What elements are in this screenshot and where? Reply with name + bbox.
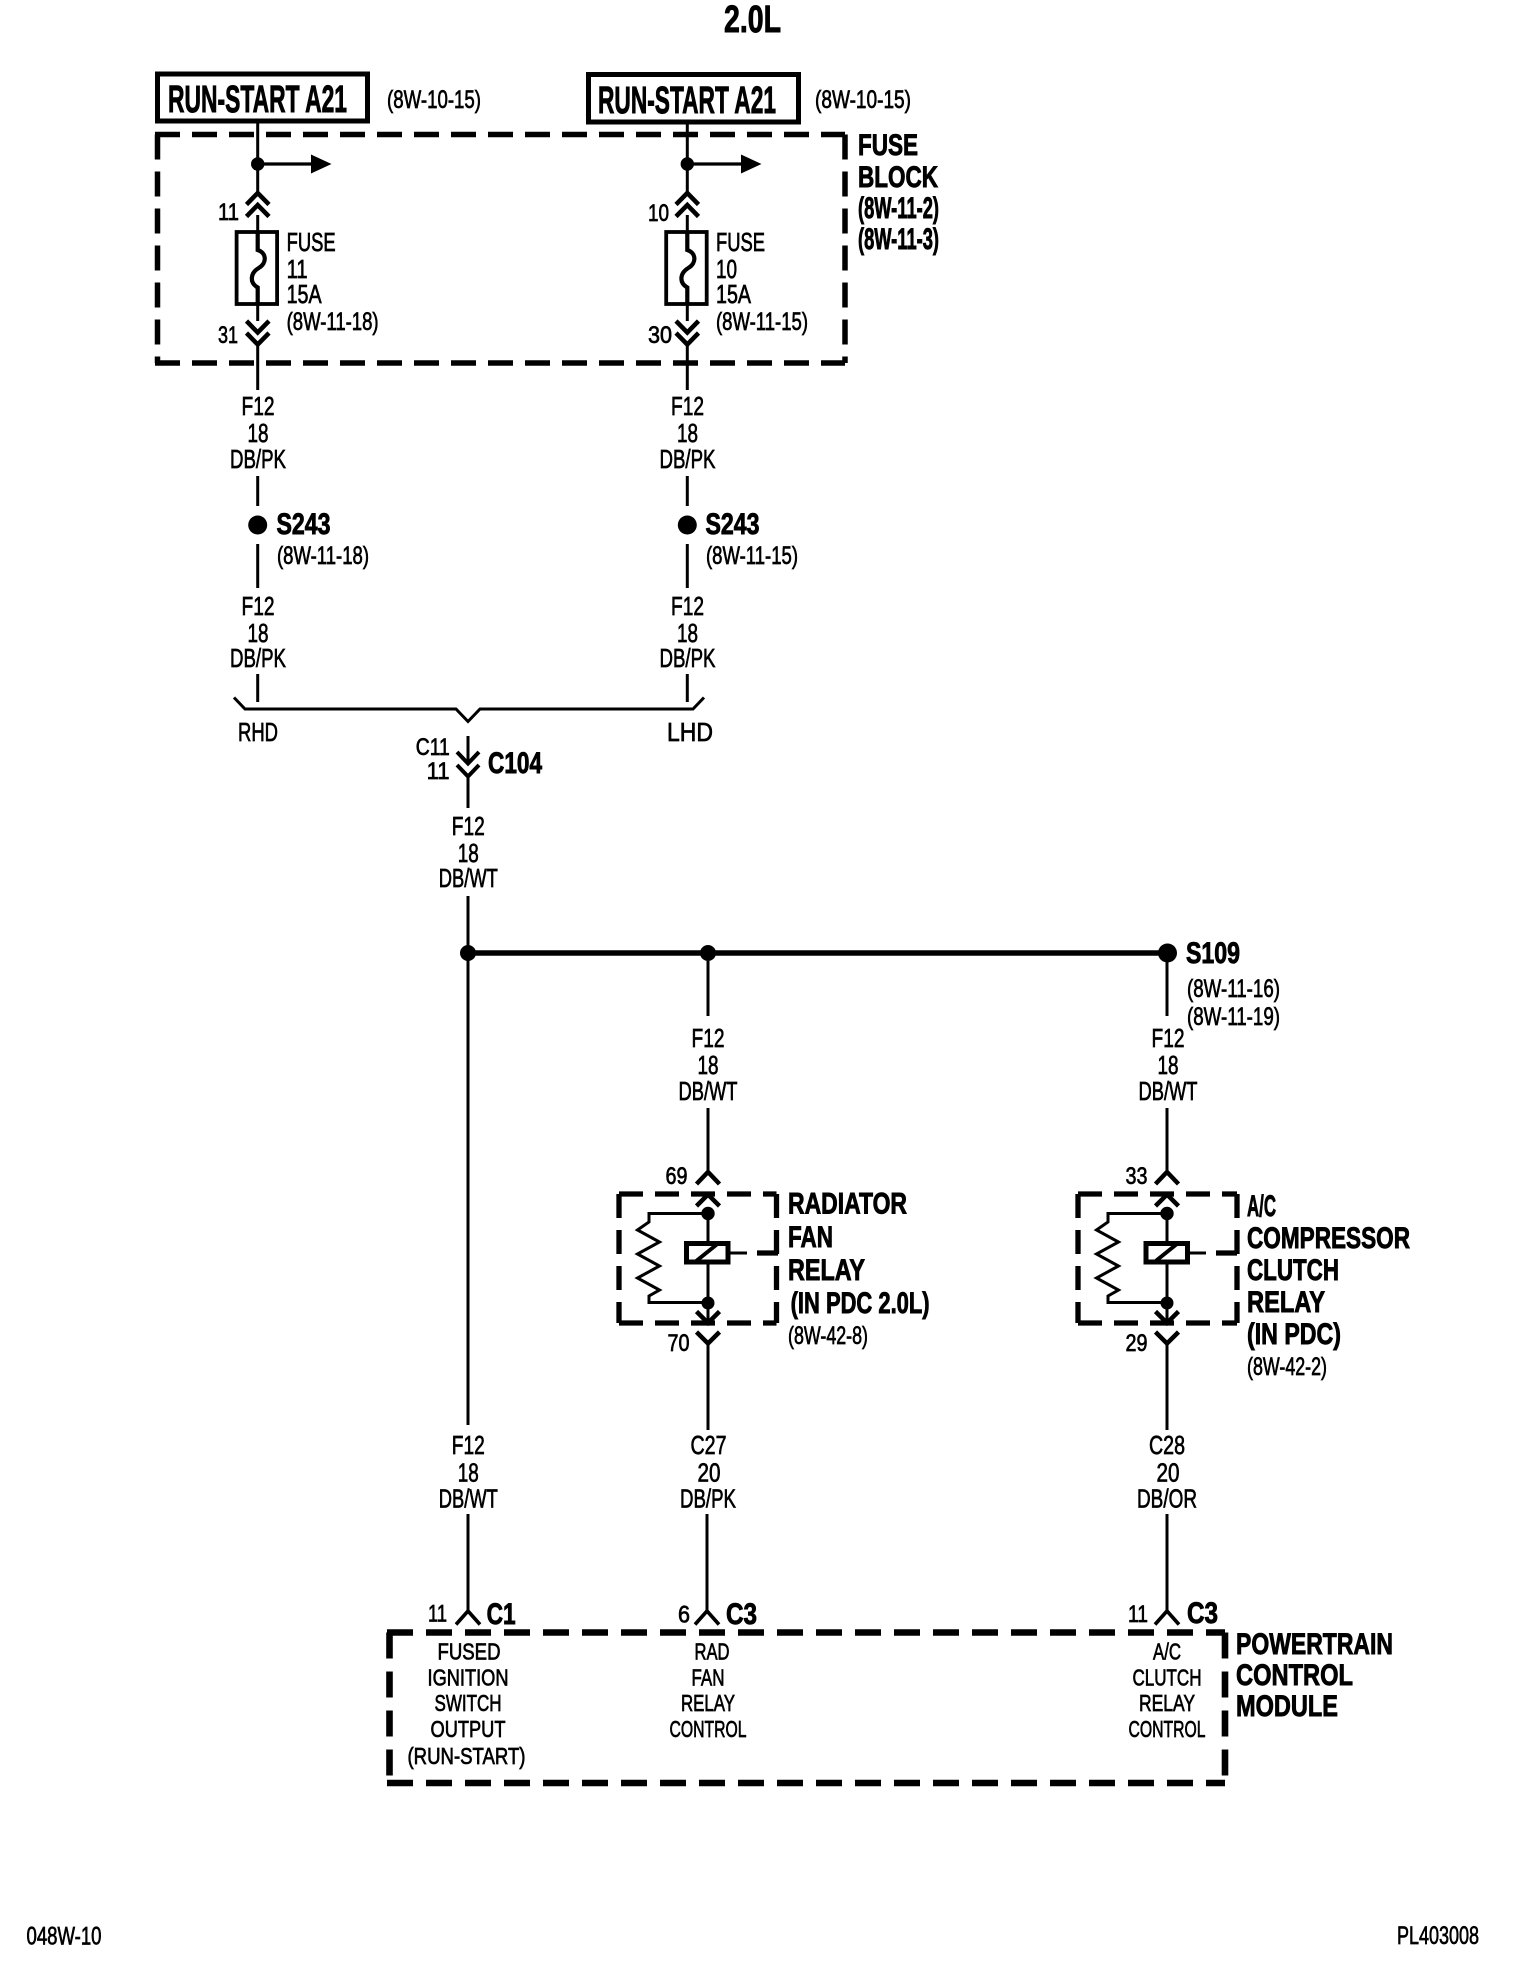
connector chevron pin 69 (697, 1172, 720, 1184)
junction dot middle (700, 945, 716, 961)
connector chevrons pin 11 (247, 193, 270, 205)
wire below S243 right (686, 544, 689, 588)
svg-text:FUSE: FUSE (858, 129, 918, 162)
svg-text:(8W-42-8): (8W-42-8) (788, 1322, 868, 1350)
svg-text:FUSE: FUSE (716, 227, 765, 257)
wire below S243 left (256, 544, 259, 588)
resistor (A/C relay coil suppression) (1097, 1214, 1168, 1303)
svg-text:S243: S243 (706, 508, 760, 541)
relay bottom junction dot (702, 1297, 715, 1310)
wire below C104 (467, 777, 470, 808)
svg-text:RUN-START A21: RUN-START A21 (598, 80, 776, 122)
fuse F10 body (666, 232, 707, 304)
fuse F11 body (237, 232, 278, 304)
svg-text:RADIATOR: RADIATOR (788, 1188, 907, 1221)
svg-text:F12: F12 (671, 391, 704, 421)
svg-text:11: 11 (218, 199, 239, 226)
relay bottom stub wire (707, 1303, 710, 1322)
svg-text:COMPRESSOR: COMPRESSOR (1247, 1222, 1410, 1255)
relay top junction dot (701, 1207, 714, 1220)
svg-text:DB/PK: DB/PK (660, 444, 716, 474)
fuse F11 element (S-curve) (252, 232, 265, 304)
svg-text:CONTROL: CONTROL (670, 1716, 747, 1742)
svg-text:SWITCH: SWITCH (435, 1690, 502, 1716)
svg-text:(8W-11-18): (8W-11-18) (277, 542, 369, 570)
svg-text:29: 29 (1126, 1330, 1148, 1357)
junction dot fuse block feed right (681, 157, 694, 170)
relay inner chevron top (697, 1195, 720, 1207)
svg-text:A/C: A/C (1153, 1639, 1181, 1665)
wire fuse 11 to pin 31 (256, 304, 259, 321)
wire pin 31 through fuse block edge (256, 345, 259, 391)
relay inner chevron top (A/C) (1156, 1195, 1179, 1207)
splice S109 trunk wire (468, 950, 1168, 956)
svg-text:C27: C27 (691, 1430, 727, 1460)
svg-text:FUSE: FUSE (287, 227, 336, 257)
svg-text:(8W-11-18): (8W-11-18) (287, 308, 379, 336)
relay inner chevron bottom (A/C) (1156, 1312, 1179, 1324)
svg-text:A/C: A/C (1247, 1190, 1276, 1223)
svg-text:POWERTRAIN: POWERTRAIN (1236, 1628, 1393, 1661)
svg-text:70: 70 (668, 1330, 690, 1357)
svg-text:RELAY: RELAY (788, 1254, 865, 1287)
svg-text:C3: C3 (1187, 1597, 1218, 1630)
node RUN-START A21 (right feed box) (589, 75, 799, 123)
wire to splice S243 right (686, 476, 689, 506)
svg-text:S243: S243 (277, 508, 331, 541)
svg-text:F12: F12 (452, 811, 485, 841)
relay coil box (687, 1244, 729, 1263)
svg-text:RELAY: RELAY (1247, 1286, 1325, 1319)
svg-text:RAD: RAD (695, 1639, 730, 1665)
svg-text:DB/OR: DB/OR (1137, 1484, 1197, 1514)
svg-text:11: 11 (1128, 1601, 1148, 1628)
svg-text:BLOCK: BLOCK (858, 161, 938, 194)
svg-text:C1: C1 (487, 1598, 516, 1631)
svg-text:DB/PK: DB/PK (660, 643, 716, 673)
svg-text:C104: C104 (488, 747, 542, 780)
relay coil lead (A/C) (1188, 1252, 1207, 1255)
svg-text:C28: C28 (1149, 1430, 1185, 1460)
svg-text:S109: S109 (1186, 937, 1240, 970)
svg-text:CONTROL: CONTROL (1129, 1716, 1206, 1742)
splice S109 dot (1158, 944, 1177, 963)
svg-text:F12: F12 (242, 391, 275, 421)
connector C104 chevrons (457, 752, 479, 764)
svg-text:(8W-10-15): (8W-10-15) (815, 86, 911, 114)
svg-text:DB/PK: DB/PK (230, 444, 286, 474)
wire chevron to fuse 11 (256, 215, 259, 233)
svg-text:MODULE: MODULE (1236, 1690, 1338, 1723)
wire to PCM pin 6 C3 (706, 1514, 709, 1611)
svg-text:(RUN-START): (RUN-START) (408, 1743, 526, 1769)
wire LHD drop (686, 674, 689, 702)
svg-text:IGNITION: IGNITION (428, 1665, 509, 1691)
arrow feed-through right (687, 162, 741, 165)
wire C104 to S109 trunk and down to PCM (467, 896, 470, 1425)
wire chevron to fuse 10 (686, 215, 689, 233)
svg-text:10: 10 (648, 200, 669, 227)
svg-text:F12: F12 (1152, 1023, 1185, 1053)
svg-text:048W-10: 048W-10 (27, 1923, 102, 1951)
svg-text:DB/WT: DB/WT (1139, 1076, 1198, 1106)
wire S109 to radiator fan relay (707, 961, 710, 1016)
svg-text:11: 11 (428, 1601, 447, 1628)
svg-text:RHD: RHD (238, 717, 278, 747)
svg-text:(8W-11-19): (8W-11-19) (1187, 1003, 1280, 1031)
radiator fan relay dashed box (619, 1191, 777, 1196)
resistor (relay coil suppression) (638, 1214, 709, 1303)
svg-text:DB/PK: DB/PK (680, 1484, 736, 1514)
wire pin 30 through fuse block edge (686, 345, 689, 391)
wire S109 to A/C relay (1166, 961, 1169, 1016)
connector fork pin 11 C1 (456, 1611, 480, 1625)
svg-text:6: 6 (678, 1602, 690, 1629)
svg-text:(8W-10-15): (8W-10-15) (387, 86, 481, 114)
svg-text:(8W-11-3): (8W-11-3) (858, 223, 939, 256)
svg-text:(8W-11-16): (8W-11-16) (1187, 975, 1280, 1003)
relay coil wire (707, 1214, 710, 1304)
svg-text:CLUTCH: CLUTCH (1247, 1254, 1339, 1287)
relay coil diagonal (695, 1244, 718, 1263)
wire to splice S243 left (256, 476, 259, 506)
svg-text:RELAY: RELAY (1139, 1690, 1195, 1716)
svg-text:F12: F12 (452, 1430, 485, 1460)
node RUN-START A21 (left feed box) (158, 74, 368, 121)
svg-text:DB/PK: DB/PK (230, 643, 286, 673)
svg-text:(8W-42-2): (8W-42-2) (1247, 1353, 1327, 1381)
wire bracket to C104 (467, 736, 470, 763)
svg-text:F12: F12 (671, 591, 704, 621)
svg-text:33: 33 (1126, 1163, 1148, 1190)
svg-text:LHD: LHD (667, 717, 713, 747)
relay coil wire (A/C) (1166, 1214, 1169, 1304)
svg-text:(IN PDC 2.0L): (IN PDC 2.0L) (791, 1287, 930, 1320)
svg-text:C11: C11 (416, 734, 450, 761)
splice S243 right dot (678, 516, 697, 535)
svg-text:DB/WT: DB/WT (679, 1076, 738, 1106)
wire pin 70 down (707, 1344, 710, 1431)
svg-text:F12: F12 (242, 591, 275, 621)
A/C compressor clutch relay dashed box (1078, 1191, 1237, 1196)
svg-text:(8W-11-2): (8W-11-2) (858, 192, 939, 225)
svg-text:2.0L: 2.0L (724, 0, 781, 41)
junction dot left (460, 945, 476, 961)
svg-text:30: 30 (648, 322, 672, 349)
wire RHD drop (256, 674, 259, 702)
fuse block dashed outline (155, 132, 845, 138)
merge bracket RHD/LHD to C104 (234, 698, 704, 722)
wire RUN-START A21 to fuse 11 (256, 121, 259, 193)
svg-text:31: 31 (218, 322, 238, 349)
wire to PCM pin 11 C3 (1166, 1514, 1169, 1611)
fuse F10 element (S-curve) (681, 232, 694, 304)
svg-text:FAN: FAN (788, 1221, 833, 1254)
svg-text:FAN: FAN (692, 1665, 725, 1691)
svg-text:(8W-11-15): (8W-11-15) (706, 542, 798, 570)
connector chevrons pin 30 (676, 321, 699, 333)
wire to pin 33 (1166, 1108, 1169, 1172)
svg-text:CLUTCH: CLUTCH (1133, 1665, 1202, 1691)
svg-text:(8W-11-15): (8W-11-15) (716, 308, 808, 336)
svg-text:PL403008: PL403008 (1397, 1922, 1479, 1950)
svg-text:(IN PDC): (IN PDC) (1247, 1318, 1341, 1351)
svg-text:15A: 15A (287, 279, 322, 309)
connector chevron pin 33 (1156, 1172, 1179, 1184)
connector chevrons pin 10 (676, 193, 699, 205)
svg-text:C3: C3 (726, 1598, 757, 1631)
relay coil box (A/C) (1146, 1244, 1188, 1263)
svg-text:11: 11 (427, 758, 450, 785)
svg-text:DB/WT: DB/WT (439, 1484, 498, 1514)
svg-text:15A: 15A (716, 279, 751, 309)
relay top junction dot (A/C) (1160, 1207, 1173, 1220)
wire to PCM pin 11 C1 (467, 1514, 470, 1611)
svg-text:FUSED: FUSED (438, 1639, 501, 1665)
svg-text:DB/WT: DB/WT (439, 863, 498, 893)
svg-text:OUTPUT: OUTPUT (431, 1716, 506, 1742)
relay coil diagonal (A/C) (1155, 1244, 1178, 1263)
connector fork pin 6 C3 (695, 1611, 719, 1625)
splice S243 left dot (248, 516, 267, 535)
connector chevron pin 70 (697, 1332, 720, 1344)
svg-text:CONTROL: CONTROL (1236, 1659, 1353, 1692)
wire to pin 69 (707, 1108, 710, 1172)
relay coil lead (728, 1252, 747, 1255)
svg-text:69: 69 (666, 1163, 688, 1190)
svg-text:RUN-START A21: RUN-START A21 (168, 79, 347, 121)
relay inner chevron bottom (697, 1312, 720, 1324)
wire RUN-START A21 to fuse 10 (686, 122, 689, 194)
junction dot fuse block feed left (251, 157, 264, 170)
powertrain control module dashed box (387, 1629, 1225, 1636)
svg-text:RELAY: RELAY (681, 1690, 735, 1716)
connector chevrons pin 31 (247, 321, 270, 333)
wire fuse 10 to pin 30 (686, 304, 689, 321)
wire pin 29 down (1166, 1344, 1169, 1431)
connector fork pin 11 C3 (1155, 1611, 1179, 1625)
connector chevron pin 29 (1156, 1332, 1179, 1344)
relay bottom stub wire (A/C) (1166, 1303, 1169, 1322)
svg-text:F12: F12 (692, 1023, 725, 1053)
arrow feed-through left (258, 162, 311, 165)
relay bottom junction dot (A/C) (1161, 1297, 1174, 1310)
